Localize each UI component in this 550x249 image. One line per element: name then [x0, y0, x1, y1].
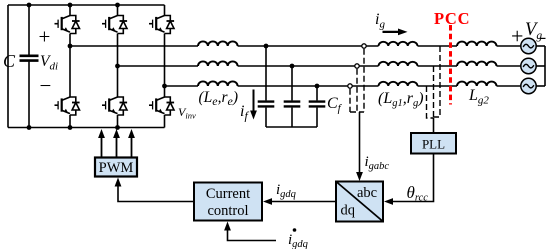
wire inverter leg 3	[164, 5, 166, 128]
wire dashed voltage tap A (PLL)	[434, 46, 441, 117]
svg-text:Current: Current	[206, 186, 250, 202]
inductor Lg2 phase A	[457, 42, 497, 46]
svg-text:ig: ig	[375, 11, 385, 31]
node: current sensor B (circle)	[355, 64, 359, 68]
wire PLL input	[433, 118, 435, 133]
svg-text:(Le,re): (Le,re)	[199, 89, 239, 108]
wire dashed current tap A	[363, 49, 365, 112]
IGBT Q2 (bottom, leg1)	[55, 97, 80, 115]
arrow PWM gate 2	[113, 129, 120, 158]
svg-text:if: if	[240, 103, 249, 123]
node Cf tap A	[264, 44, 269, 49]
IGBT Q6 (bottom, leg3)	[149, 97, 174, 115]
capacitor Cf branch B	[284, 66, 301, 127]
label igdq* (reference)	[288, 228, 308, 249]
arrow igdq (abc/dq to Current control)	[263, 198, 336, 205]
svg-text:Vinv: Vinv	[178, 105, 196, 121]
wire bottom DC rail	[8, 127, 165, 129]
arrow if (current)	[250, 90, 257, 120]
wire dashed current tap B	[356, 69, 358, 112]
source Vg phase C	[521, 78, 536, 93]
source Vg phase A	[521, 38, 536, 53]
label - (grid)	[540, 37, 546, 39]
svg-text:igdq: igdq	[276, 182, 296, 200]
svg-text:igdq: igdq	[288, 232, 308, 249]
wire dashed voltage tap B (PLL)	[433, 66, 435, 118]
capacitor Cf branch A	[258, 46, 275, 127]
svg-text:PLL: PLL	[422, 137, 445, 152]
wire source stub B	[536, 65, 545, 67]
arrow igdq ref into Current control	[224, 222, 231, 231]
wire phase B	[118, 65, 521, 67]
svg-text:control: control	[207, 203, 248, 219]
node leg1 top	[68, 3, 73, 8]
IGBT Q3 (top, leg2)	[102, 16, 127, 34]
node leg1 bottom	[68, 125, 73, 130]
arrow igabc to abc/dq	[356, 112, 363, 181]
inductor Le phase C	[198, 81, 238, 86]
IGBT Q5 (top, leg3)	[149, 16, 174, 34]
node: capacitor top junction	[27, 3, 32, 8]
wire theta from PLL	[392, 154, 434, 202]
wire source stub C	[536, 85, 545, 87]
wire Cf bottom rail	[266, 126, 317, 128]
arrow PWM gate 1	[98, 129, 105, 158]
svg-text:dq: dq	[341, 203, 356, 219]
wire dashed voltage tap C (PLL)	[427, 86, 434, 118]
wire igdq reference	[228, 230, 277, 241]
inductor Lg1 phase C	[379, 82, 418, 86]
svg-text:PCC: PCC	[434, 9, 470, 28]
svg-text:(Lg1,rg): (Lg1,rg)	[378, 90, 424, 109]
wire top DC rail	[8, 4, 165, 6]
abc/dq block	[336, 182, 383, 222]
node leg2 top	[115, 3, 120, 8]
svg-text:+: +	[511, 24, 523, 49]
svg-text:abc: abc	[357, 185, 377, 201]
capacitor C (DC link)	[20, 5, 39, 128]
arrow PWM gate 3	[128, 129, 135, 158]
node phase C tap	[162, 84, 167, 89]
PCC dashed line (red)	[449, 25, 452, 105]
inductor Lg1 phase B	[379, 62, 418, 66]
node phase B tap	[115, 64, 120, 69]
PWM block	[95, 158, 137, 177]
wire source stub A	[536, 45, 545, 47]
svg-text:+: +	[39, 25, 51, 49]
node leg2 bottom	[115, 125, 120, 130]
IGBT Q1 (top, leg1)	[55, 16, 80, 34]
svg-text:θrcc: θrcc	[407, 183, 429, 204]
inductor Le phase B	[198, 61, 238, 66]
arrow into PWM bottom	[115, 178, 122, 187]
wire Current control to PWM	[118, 186, 194, 202]
svg-text:Vdi: Vdi	[40, 53, 58, 73]
wire inverter leg 1	[69, 5, 71, 128]
PLL block	[411, 133, 456, 154]
node Cf tap C	[315, 84, 320, 89]
inductor Lg2 phase B	[457, 62, 497, 66]
svg-text:igabc: igabc	[365, 154, 390, 172]
inductor Lg2 phase C	[457, 82, 497, 86]
wire dashed current tap C	[349, 89, 351, 112]
wire source right rail	[544, 46, 546, 86]
wire left DC rail	[7, 5, 9, 128]
svg-text:Cf: Cf	[327, 95, 343, 115]
svg-text:C: C	[3, 51, 16, 71]
svg-text:PWM: PWM	[99, 160, 134, 176]
Current control block	[194, 183, 262, 221]
node: capacitor bottom junction	[27, 125, 32, 130]
source Vg phase B	[521, 58, 536, 73]
inductor Lg1 phase A	[379, 42, 418, 46]
IGBT Q4 (bottom, leg2)	[102, 97, 127, 115]
svg-text:−: −	[40, 74, 52, 98]
arrow ig direction	[383, 29, 408, 36]
svg-text:Lg2: Lg2	[468, 87, 489, 107]
wire phase A	[70, 45, 521, 47]
inductor Le phase A	[198, 41, 238, 46]
node: current sensor A (circle)	[362, 44, 366, 48]
wire inverter leg 2	[117, 5, 119, 128]
node Cf tap B	[290, 64, 295, 69]
wire phase C	[165, 85, 521, 87]
arrow theta into abc/dq	[384, 198, 393, 205]
node: current sensor C (circle)	[348, 84, 352, 88]
node phase A tap	[68, 44, 73, 49]
capacitor Cf branch C	[309, 86, 326, 127]
wire dashed current tap merge	[350, 111, 364, 113]
